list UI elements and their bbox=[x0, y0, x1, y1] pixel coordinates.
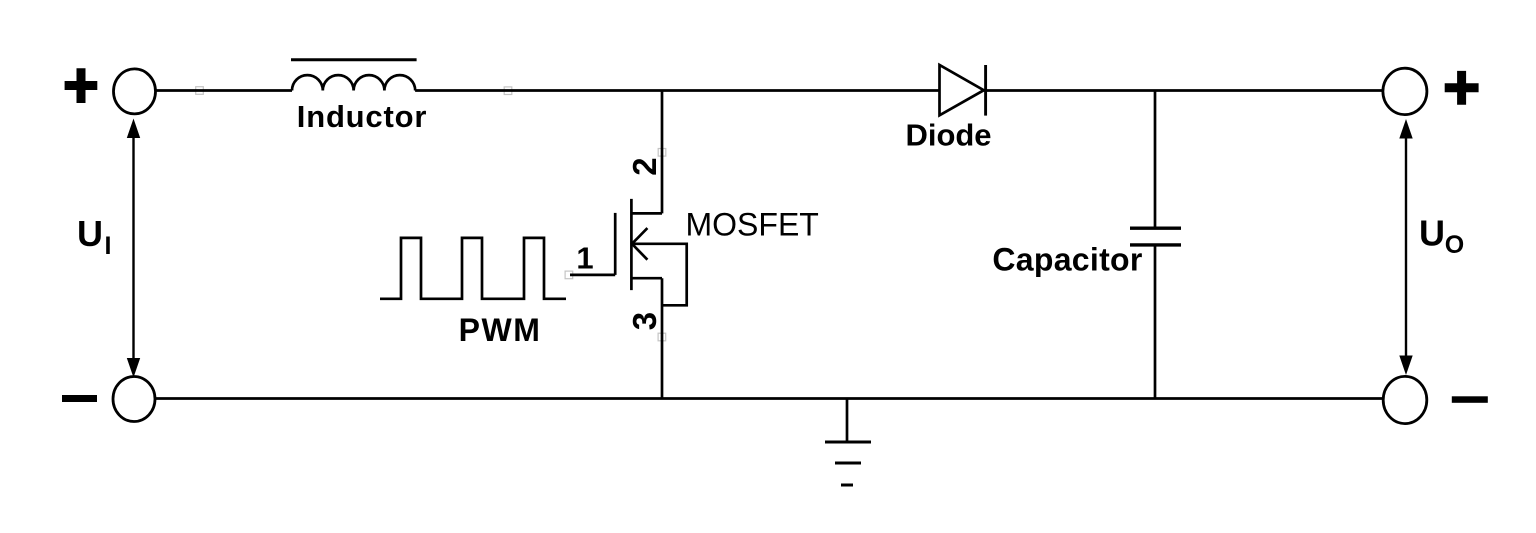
svg-text:Diode: Diode bbox=[905, 118, 991, 153]
MOSFET gate lead (pin 1) bbox=[570, 274, 615, 277]
ground bar 3 bbox=[841, 484, 853, 487]
svg-text:O: O bbox=[1445, 231, 1464, 259]
ground bar 1 bbox=[825, 441, 871, 444]
U_I arrow stem bbox=[132, 136, 134, 360]
MOSFET Q1 drain wire (pin 2) bbox=[661, 91, 664, 214]
svg-text:3: 3 bbox=[626, 312, 663, 330]
plus sign output bbox=[1445, 71, 1479, 105]
wire top rail: diode cathode to output terminal bbox=[984, 89, 1384, 92]
capacitor bottom lead bbox=[1154, 245, 1157, 399]
handle on source pin 3 bbox=[658, 333, 666, 341]
svg-text:MOSFET: MOSFET bbox=[686, 207, 819, 243]
MOSFET body lead with arrow bbox=[633, 244, 687, 305]
inductor L1 coil (4 humps) bbox=[292, 75, 415, 90]
ground stem bbox=[846, 399, 849, 443]
MOSFET channel bar bbox=[630, 199, 633, 290]
MOSFET body arrowhead bbox=[632, 228, 647, 260]
input terminal circle (top left) bbox=[114, 69, 156, 114]
capacitor C1 top lead bbox=[1154, 91, 1157, 229]
input bottom terminal circle (bottom left) bbox=[113, 377, 155, 422]
svg-text:1: 1 bbox=[576, 241, 593, 276]
minus sign output bbox=[1452, 396, 1488, 403]
U_O arrowhead up bbox=[1399, 119, 1412, 139]
handle on gate pin 1 bbox=[565, 271, 573, 279]
wire top rail: input terminal to inductor bbox=[155, 89, 292, 92]
MOSFET drain lead horizontal bbox=[631, 212, 662, 215]
MOSFET source lead horizontal bbox=[631, 277, 662, 280]
U_I arrowhead up bbox=[127, 119, 140, 139]
PWM waveform bbox=[380, 238, 566, 299]
svg-text:PWM: PWM bbox=[459, 312, 542, 348]
U_O arrow stem bbox=[1405, 136, 1407, 358]
diode cathode bar bbox=[984, 65, 987, 116]
output bottom terminal circle (bottom right) bbox=[1383, 376, 1427, 423]
wire bottom rail bbox=[155, 397, 1384, 400]
svg-text:U: U bbox=[1419, 213, 1445, 254]
svg-text:Capacitor: Capacitor bbox=[992, 242, 1142, 278]
diode D1 triangle bbox=[940, 65, 984, 115]
svg-text:I: I bbox=[105, 232, 112, 260]
handle on wire mid top rail bbox=[504, 87, 512, 95]
svg-text:2: 2 bbox=[626, 157, 663, 175]
svg-text:Inductor: Inductor bbox=[297, 99, 427, 134]
minus sign input bbox=[62, 395, 97, 402]
ground bar 2 bbox=[835, 462, 861, 465]
U_I arrowhead down bbox=[127, 358, 140, 378]
wire top rail: inductor to diode anode bbox=[415, 89, 939, 92]
handle on wire near input bbox=[196, 87, 204, 95]
capacitor bottom plate bbox=[1130, 243, 1181, 246]
handle on drain pin 2 bbox=[658, 149, 666, 157]
plus sign input bbox=[65, 68, 98, 103]
svg-text:U: U bbox=[77, 213, 103, 254]
capacitor top plate bbox=[1130, 226, 1181, 229]
MOSFET gate bar bbox=[614, 213, 617, 275]
MOSFET source wire (pin 3) bbox=[661, 278, 664, 398]
output terminal circle (top right) bbox=[1383, 68, 1427, 114]
U_O arrowhead down bbox=[1399, 356, 1412, 376]
inductor core bar bbox=[291, 58, 417, 61]
